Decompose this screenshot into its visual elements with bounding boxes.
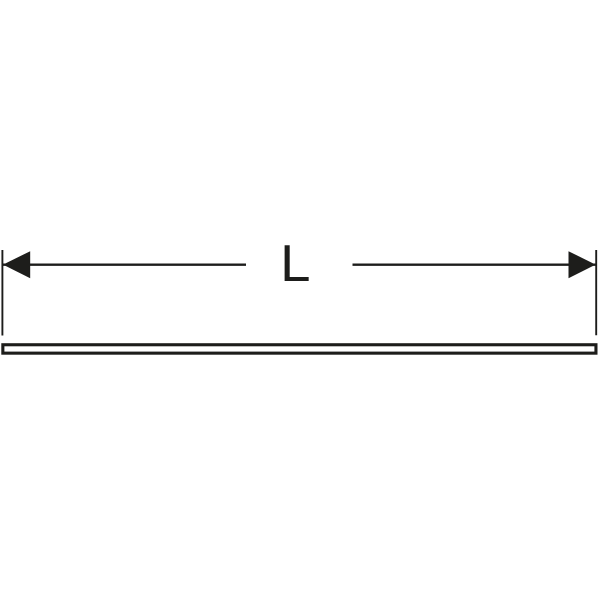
svg-text:L: L (280, 235, 310, 293)
